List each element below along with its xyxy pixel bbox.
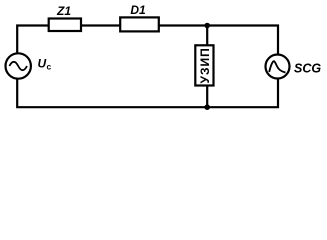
wire УЗИП bottom stub <box>206 86 208 108</box>
source Uc circle <box>6 53 31 78</box>
svg-text:c: c <box>47 62 52 72</box>
svg-text:Z1: Z1 <box>56 4 71 18</box>
impedance Z1 <box>49 19 81 32</box>
impulse symbol in SCG <box>269 61 285 72</box>
node junction top <box>204 23 210 29</box>
svg-text:SCG: SCG <box>294 61 321 75</box>
svg-text:U: U <box>38 56 47 70</box>
svg-text:УЗИП: УЗИП <box>198 47 212 83</box>
surge generator SCG circle <box>266 55 290 79</box>
svg-text:D1: D1 <box>130 3 146 17</box>
wire УЗИП top stub <box>206 26 208 46</box>
wire Z1 to D1 <box>81 24 120 26</box>
wire D1 to top-right corner down to SCG <box>159 26 278 54</box>
node junction bottom <box>204 104 210 110</box>
device D1 <box>120 17 159 31</box>
SPD УЗИП box <box>195 45 213 85</box>
wire top-left corner from source Uc up and right to Z1 <box>17 26 49 53</box>
wire bottom rail <box>17 79 278 107</box>
sine symbol in Uc <box>9 62 27 70</box>
